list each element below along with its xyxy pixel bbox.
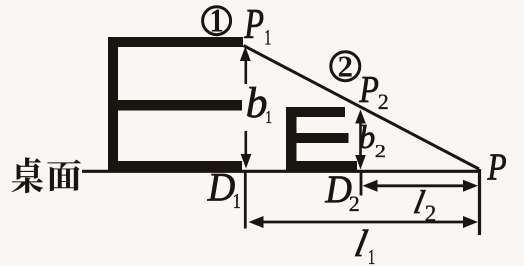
P tick line (478, 169, 481, 235)
svg-text:P: P (243, 2, 264, 48)
svg-text:1: 1 (264, 25, 271, 49)
small E object (286, 107, 357, 171)
svg-text:1: 1 (233, 190, 241, 213)
svg-text:1: 1 (209, 1, 223, 39)
label D2 (324, 168, 351, 211)
label P (487, 145, 507, 188)
table surface line (82, 170, 480, 173)
l2 dimension arrow (372, 184, 468, 187)
circled 1 (203, 1, 231, 39)
D2 tick line (360, 170, 363, 196)
svg-text:P: P (358, 68, 378, 110)
b1 dimension arrow (245, 55, 248, 161)
svg-text:D: D (324, 168, 351, 211)
svg-text:2: 2 (349, 191, 360, 216)
D1 tick line (244, 171, 247, 229)
label D1 (207, 166, 235, 210)
svg-text:D: D (207, 166, 235, 210)
label l2 (411, 184, 428, 221)
label P2 (358, 68, 378, 110)
svg-text:P: P (487, 145, 507, 188)
b2 dimension arrow (359, 117, 362, 160)
svg-text:2: 2 (375, 142, 386, 161)
l1 dimension arrow (258, 221, 468, 224)
svg-text:b: b (246, 79, 268, 127)
circled 2 (331, 49, 360, 84)
label 桌面 (table surface) (12, 157, 81, 193)
svg-text:2: 2 (338, 49, 354, 84)
svg-text:2: 2 (378, 89, 389, 114)
svg-text:b: b (359, 120, 376, 156)
svg-text:1: 1 (265, 109, 272, 128)
label l1 (351, 223, 370, 265)
sight line from P through P2 to P1 (244, 46, 480, 170)
big E object (108, 37, 243, 172)
svg-text:1: 1 (368, 246, 376, 266)
label P1 (243, 2, 264, 48)
